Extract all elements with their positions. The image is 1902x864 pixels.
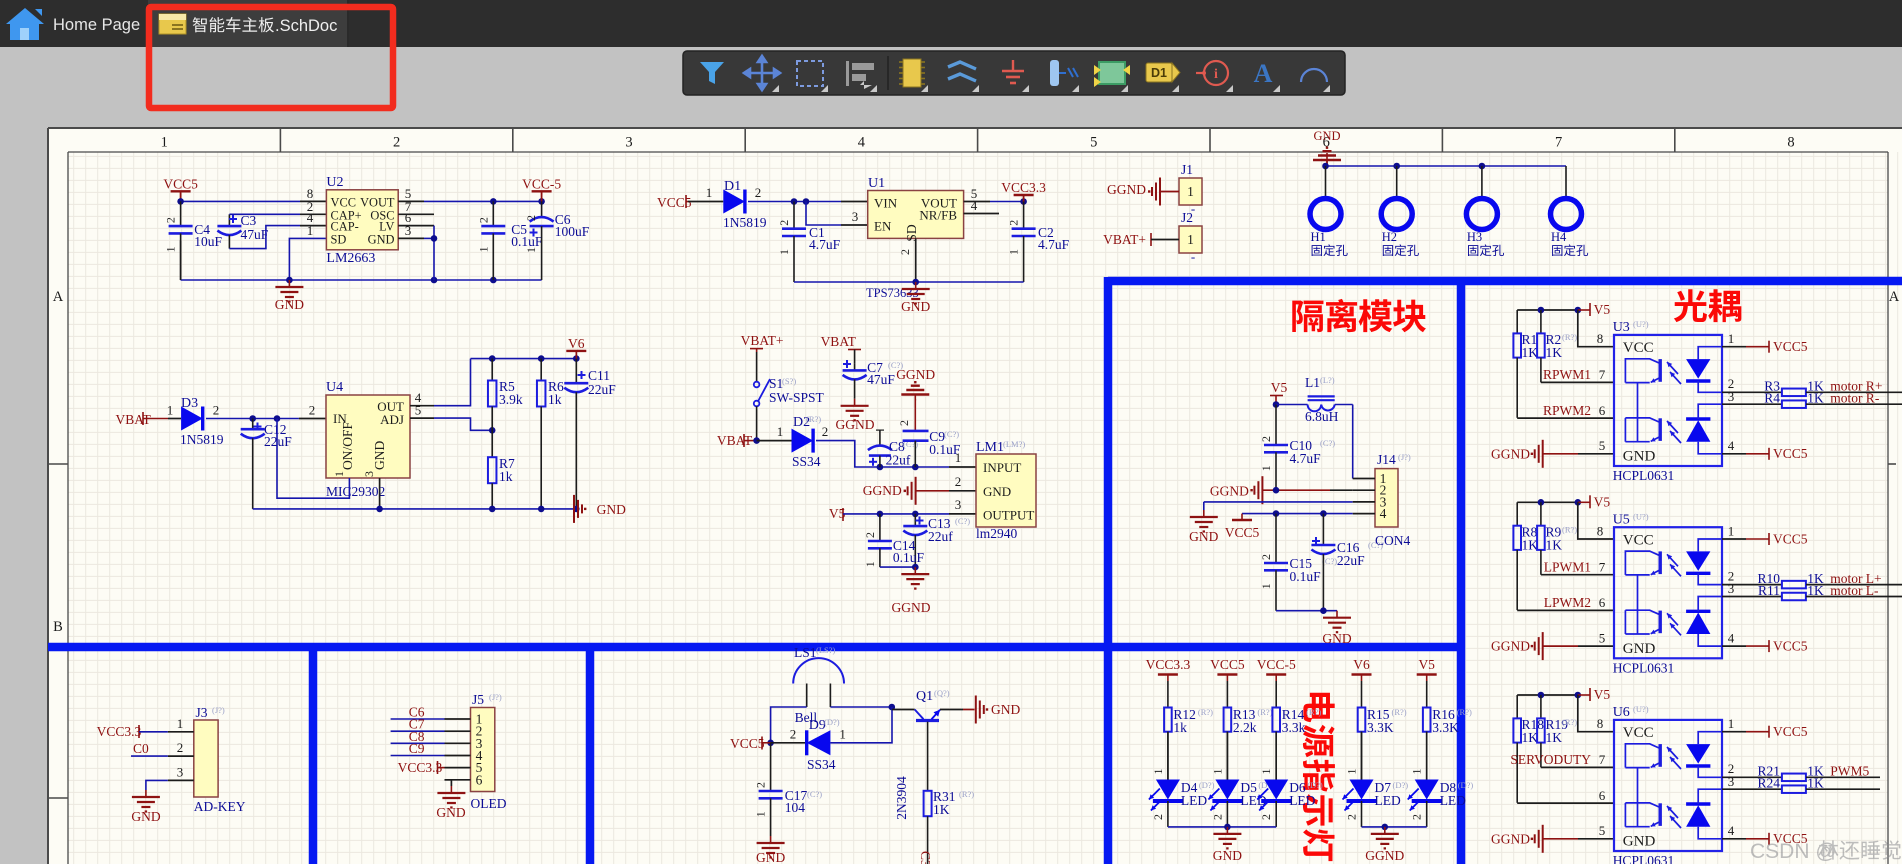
wire bell right leg to Q1 (830, 706, 891, 708)
svg-text:GND: GND (597, 502, 626, 517)
svg-text:(R?): (R?) (1457, 707, 1472, 717)
capacitor C17 (770, 743, 772, 791)
svg-text:1K: 1K (1807, 583, 1824, 598)
svg-text:J2: J2 (1181, 210, 1193, 225)
svg-text:(R?): (R?) (1198, 707, 1213, 717)
svg-text:(R?): (R?) (1562, 332, 1577, 342)
svg-text:4: 4 (971, 198, 978, 213)
phototransistor A (U6) (1658, 744, 1661, 767)
svg-text:(J?): (J?) (1398, 452, 1411, 462)
ic U2 LM2663 (326, 190, 398, 250)
mid link (U5) (1637, 575, 1639, 634)
mounting hole H1 (1325, 166, 1327, 198)
capacitor C7 (854, 364, 856, 371)
svg-text:4: 4 (1728, 438, 1735, 453)
svg-text:47uF: 47uF (867, 372, 895, 387)
svg-text:LM1: LM1 (976, 440, 1004, 455)
svg-text:3: 3 (1728, 389, 1735, 404)
led A (U5) (1686, 551, 1710, 571)
svg-text:2: 2 (1210, 814, 1224, 820)
svg-text:7: 7 (1599, 559, 1606, 574)
ground GND (J5) (450, 786, 452, 793)
light arrows B (U6) (1667, 806, 1678, 818)
resistor R13 (1226, 707, 1228, 709)
resistor R14 (1275, 707, 1277, 709)
svg-text:2: 2 (1259, 436, 1273, 442)
led A (U3) (1686, 359, 1710, 379)
svg-text:(L?): (L?) (1320, 375, 1335, 385)
svg-text:lm2940: lm2940 (976, 526, 1018, 541)
capacitor C2 (1023, 202, 1025, 229)
svg-text:GND: GND (1623, 449, 1656, 465)
sheet border frame (48, 127, 1902, 129)
wire J14 pin4 row (1242, 513, 1353, 515)
U4 pin1 ON/OFF wire loop (277, 419, 349, 499)
svg-text:1: 1 (307, 223, 314, 238)
svg-text:4.7uF: 4.7uF (1038, 237, 1070, 252)
capacitor C5 (492, 201, 494, 226)
capacitor C1 (793, 202, 795, 229)
svg-text:V6: V6 (568, 336, 585, 351)
pin 8 stub U2 (300, 200, 326, 202)
svg-text:22uf: 22uf (886, 453, 911, 468)
light arrows B (U5) (1667, 613, 1678, 625)
connector J5 OLED (471, 708, 495, 792)
svg-text:1: 1 (1151, 769, 1165, 775)
svg-text:(C?): (C?) (807, 789, 822, 799)
light arrows A (U5) (1667, 554, 1678, 566)
svg-text:(D?): (D?) (1199, 780, 1215, 790)
svg-text:C11: C11 (588, 368, 610, 383)
svg-text:VCC5: VCC5 (1773, 638, 1808, 653)
wire pin6 (U3) RPWM2 (1517, 417, 1614, 419)
svg-text:(J?): (J?) (489, 692, 502, 702)
resistor R12 (1167, 707, 1169, 709)
switch S1 SW-SPST (754, 382, 760, 388)
svg-text:EN: EN (874, 219, 892, 234)
svg-text:GGND: GGND (1107, 182, 1146, 197)
wire VCC5 to D1 (688, 201, 723, 203)
svg-text:A: A (53, 289, 64, 305)
svg-text:U5: U5 (1613, 512, 1630, 527)
svg-text:1: 1 (1410, 769, 1424, 775)
svg-text:VCC-5: VCC-5 (522, 176, 561, 191)
pin2 R10 (U5) (1722, 584, 1782, 586)
svg-text:1: 1 (1259, 465, 1273, 471)
svg-text:4: 4 (858, 135, 866, 151)
toolbar arc icon (1301, 69, 1327, 82)
ground GND (Q1) (963, 709, 975, 711)
svg-text:VCC-5: VCC-5 (1257, 657, 1296, 672)
junction dot VCC5/C4 (177, 198, 184, 205)
svg-text:4.7uF: 4.7uF (1290, 451, 1322, 466)
svg-text:VCC: VCC (1623, 532, 1654, 548)
svg-text:B: B (53, 619, 63, 635)
svg-text:2: 2 (1259, 814, 1273, 820)
ground GND (isolation bottom) (1336, 611, 1338, 618)
svg-text:VIN: VIN (874, 196, 898, 211)
wire VBAT+ to S1 (756, 352, 758, 381)
svg-text:VCC3.3: VCC3.3 (1001, 180, 1046, 195)
svg-text:0.1uF: 0.1uF (893, 550, 925, 565)
floating toolbar (683, 51, 1345, 95)
capacitor C12 (252, 419, 254, 430)
svg-text:2: 2 (777, 220, 791, 226)
svg-text:GGND: GGND (1491, 639, 1530, 654)
svg-text:V5: V5 (1271, 380, 1288, 395)
svg-text:OLED: OLED (471, 796, 507, 811)
wire VCC5 to D9 (771, 742, 807, 744)
home icon (6, 8, 44, 40)
power VCC5 (isolation) (1241, 514, 1243, 520)
svg-text:(U?): (U?) (1633, 319, 1649, 329)
pin 4 stub U2 (300, 225, 326, 227)
pin3 R24 (U6) (1722, 788, 1782, 790)
svg-text:GGND: GGND (863, 483, 902, 498)
svg-text:6: 6 (1599, 403, 1606, 418)
svg-text:1: 1 (706, 185, 713, 200)
wire J5 pin6 to GND (445, 780, 452, 786)
wire mounting hole bus (1326, 165, 1567, 167)
power V6 (566, 350, 586, 352)
ground GND (J3) (145, 790, 147, 797)
svg-text:1: 1 (167, 403, 174, 418)
capacitor C4 (180, 201, 182, 226)
optocoupler U3 HCPL0631 (1614, 335, 1722, 466)
ic U4 MIC29302 (326, 395, 410, 478)
svg-text:2: 2 (755, 185, 762, 200)
phototransistor A (U5) (1658, 551, 1661, 574)
phototransistor A (U3) (1658, 359, 1661, 382)
svg-text:5: 5 (1599, 438, 1606, 453)
light arrows B (U3) (1667, 421, 1678, 433)
wire VCC5 to U2 pin8 (181, 200, 300, 202)
svg-text:VCC5: VCC5 (1773, 339, 1808, 354)
capacitor C16 (1322, 514, 1324, 545)
svg-text:VBAT: VBAT (821, 334, 857, 349)
mid link (U6) (1637, 768, 1639, 827)
wire pin6 (U5) LPWM2 (1517, 609, 1614, 611)
svg-text:(LS?): (LS?) (816, 645, 836, 655)
svg-text:(D?): (D?) (1307, 780, 1323, 790)
svg-text:1K: 1K (1546, 345, 1563, 360)
power VCC-5 (532, 190, 552, 192)
svg-text:H2: H2 (1382, 230, 1397, 244)
svg-text:D1: D1 (1151, 66, 1167, 80)
diode D3 1N5819 (181, 407, 203, 431)
svg-text:3: 3 (625, 135, 632, 151)
svg-text:1: 1 (1728, 523, 1735, 538)
gnd rail U1 (794, 281, 1024, 283)
svg-text:1k: 1k (499, 469, 513, 484)
svg-text:GGND: GGND (836, 417, 875, 432)
svg-text:VCC: VCC (1623, 725, 1654, 741)
wire D9 to Q1 base node (830, 707, 892, 743)
svg-text:Q1: Q1 (916, 689, 933, 704)
wire V5 rail (U5) (1517, 501, 1578, 503)
connector J2 (1179, 226, 1202, 253)
svg-text:.SchDoc: .SchDoc (275, 17, 337, 35)
svg-text:VCC5: VCC5 (1773, 531, 1808, 546)
svg-text:1K: 1K (1807, 391, 1824, 406)
svg-text:5: 5 (1090, 135, 1097, 151)
svg-text:2N3904: 2N3904 (894, 776, 909, 820)
svg-text:GND: GND (372, 441, 387, 470)
svg-text:GND: GND (131, 809, 160, 824)
wire LV/GND to rail (424, 237, 434, 239)
red annotation rectangle (149, 7, 393, 108)
svg-text:(R?): (R?) (1562, 524, 1577, 534)
svg-text:1: 1 (476, 246, 490, 252)
junction dots on U2 gnd rail (286, 277, 293, 284)
power VCC5 (U2 block) (171, 190, 191, 192)
svg-text:ADJ: ADJ (380, 412, 404, 427)
top title bar (0, 0, 1902, 47)
pin 5 stub U2 and VOUT wire (398, 200, 424, 202)
pin4 VCC5 (U6) (1722, 838, 1746, 840)
svg-text:SS34: SS34 (807, 757, 836, 772)
svg-text:V6: V6 (1353, 657, 1370, 672)
wire VBAT to D3 (143, 418, 168, 420)
svg-text:VBAT+: VBAT+ (1103, 232, 1146, 247)
capacitor C14 (879, 514, 881, 541)
led D5 (1226, 732, 1228, 780)
ground GND (isolation) (1203, 510, 1205, 517)
svg-text:VCC5: VCC5 (1773, 446, 1808, 461)
svg-text:PWM5: PWM5 (1830, 764, 1869, 779)
svg-text:H4: H4 (1551, 230, 1567, 244)
svg-text:SW-SPST: SW-SPST (769, 390, 825, 405)
svg-text:V5: V5 (1594, 687, 1611, 702)
title 光耦 (1674, 289, 1742, 322)
pin4 VCC5 (U5) (1722, 645, 1746, 647)
diode D2 SS34 (792, 429, 814, 453)
wire led gnd bus 2 (1362, 826, 1427, 828)
svg-text:3: 3 (852, 209, 859, 224)
svg-text:D3: D3 (181, 396, 198, 411)
wire pin8 (U3) (1578, 310, 1614, 347)
toolbar separator (887, 56, 889, 90)
svg-text:47uF: 47uF (241, 227, 269, 242)
svg-text:OUTPUT: OUTPUT (983, 508, 1034, 523)
wire pin8 (U6) (1578, 695, 1614, 732)
svg-text:SD: SD (904, 224, 919, 242)
wire V5 rail (U3) (1517, 309, 1578, 311)
svg-text:-: - (1191, 249, 1195, 264)
pin4 NR/FB stub (964, 213, 999, 215)
svg-text:i: i (1214, 67, 1218, 82)
svg-text:(J?): (J?) (212, 705, 225, 715)
svg-text:1K: 1K (1807, 776, 1824, 791)
wire pin6 (U6) (1517, 802, 1614, 804)
svg-text:1: 1 (1210, 769, 1224, 775)
svg-text:GND: GND (756, 850, 785, 864)
svg-text:U2: U2 (326, 175, 343, 190)
resistor R8 (1516, 502, 1518, 525)
svg-text:LED: LED (1440, 793, 1466, 808)
svg-text:HCPL0631: HCPL0631 (1613, 468, 1675, 483)
svg-text:5: 5 (1599, 823, 1606, 838)
svg-text:4: 4 (1380, 506, 1387, 521)
toolbar select icon (797, 61, 823, 86)
svg-text:2: 2 (476, 217, 490, 223)
svg-text:1: 1 (161, 135, 168, 151)
svg-text:(R?): (R?) (1392, 707, 1407, 717)
svg-text:GGND: GGND (1365, 848, 1404, 863)
svg-text:R11: R11 (1758, 583, 1780, 598)
resistor R9 (1540, 502, 1542, 525)
svg-text:(R?): (R?) (1562, 717, 1577, 727)
svg-text:2: 2 (177, 740, 184, 755)
svg-text:GGND: GGND (896, 367, 935, 382)
svg-text:6: 6 (1599, 595, 1606, 610)
phototransistor B (U5) (1658, 611, 1661, 634)
toolbar sheet symbol icon (1099, 62, 1125, 84)
svg-text:2: 2 (1151, 814, 1165, 820)
svg-text:U4: U4 (326, 380, 343, 395)
svg-text:(LM?): (LM?) (1003, 439, 1025, 449)
connector J1 (1179, 178, 1202, 205)
svg-text:VOUT: VOUT (360, 196, 395, 210)
resistor R1 (1516, 310, 1518, 333)
phototransistor B (U6) (1658, 803, 1661, 826)
svg-text:7: 7 (1599, 367, 1606, 382)
toolbar filter icon (700, 62, 724, 84)
wire U2 SD pin1 to gnd rail (289, 238, 326, 280)
svg-text:motor R-: motor R- (1830, 391, 1880, 406)
light arrows A (U6) (1667, 747, 1678, 759)
ground GGND (C7) (854, 399, 856, 406)
svg-text:22uF: 22uF (264, 434, 292, 449)
svg-text:GND: GND (1213, 848, 1242, 863)
gnd rail U4 block (253, 508, 573, 510)
resistor R2 (1540, 310, 1542, 333)
port V5 (U5) (1589, 495, 1591, 508)
grid minor (68, 152, 1898, 864)
junction dots VOUT rail (490, 198, 497, 205)
toolbar info icon (1204, 61, 1228, 85)
svg-text:GGND: GGND (1491, 446, 1530, 461)
wire J14 pin3 to GND (1204, 501, 1353, 503)
led D4 (1167, 732, 1169, 780)
svg-text:7: 7 (1599, 752, 1606, 767)
pin 6 stub U2 (398, 225, 434, 227)
svg-text:2: 2 (897, 420, 911, 426)
border row ticks and letters (48, 463, 68, 465)
power VCC3.3 (U1) (1014, 194, 1034, 196)
light arrows A (U3) (1667, 362, 1678, 374)
svg-text:3.3K: 3.3K (1367, 720, 1394, 735)
svg-text:HCPL0631: HCPL0631 (1613, 660, 1675, 675)
svg-text:22uf: 22uf (928, 529, 953, 544)
svg-text:(C?): (C?) (944, 429, 959, 439)
pin2 R21 (U6) (1722, 776, 1782, 778)
svg-text:1N5819: 1N5819 (723, 215, 767, 230)
wire bell left leg (771, 707, 807, 743)
wire U1 SD pin2 to gnd (915, 238, 917, 282)
svg-text:R4: R4 (1764, 391, 1780, 406)
svg-text:1: 1 (1259, 583, 1273, 589)
wire pin7 (U5) LPWM1 (1541, 574, 1614, 576)
svg-text:A: A (1254, 59, 1273, 88)
svg-text:C9: C9 (409, 741, 425, 756)
svg-text:1K: 1K (1522, 537, 1539, 552)
svg-text:(C?): (C?) (1320, 438, 1335, 448)
pin5 VOUT wire U1 (964, 201, 990, 203)
mid link (U3) (1637, 383, 1639, 442)
ic LM1 lm2940 (976, 454, 1036, 527)
svg-text:RPWM2: RPWM2 (1543, 403, 1591, 418)
svg-text:LPWM2: LPWM2 (1544, 595, 1591, 610)
svg-text:(R?): (R?) (806, 414, 821, 424)
svg-text:3: 3 (1728, 774, 1735, 789)
document tab icon (159, 14, 186, 34)
svg-text:10uF: 10uF (194, 234, 222, 249)
svg-text:VCC: VCC (331, 196, 356, 210)
pin 2 stub U2 (300, 213, 326, 215)
toolbar gnd icon (1002, 60, 1024, 83)
svg-text:GGND: GGND (892, 600, 931, 615)
svg-text:SD: SD (331, 233, 347, 247)
svg-text:U1: U1 (868, 176, 885, 191)
pin2 R3 (U3) (1722, 391, 1782, 393)
active document tab (148, 0, 348, 47)
gnd rail C13/C14 (880, 566, 915, 568)
svg-text:VCC3.3: VCC3.3 (1146, 657, 1191, 672)
svg-text:1: 1 (1345, 769, 1359, 775)
svg-text:NR/FB: NR/FB (919, 208, 957, 223)
svg-text:3.3K: 3.3K (1432, 720, 1459, 735)
wire D2 to LM1 INPUT (816, 441, 949, 467)
svg-text:INPUT: INPUT (983, 460, 1021, 475)
svg-text:GND: GND (1623, 834, 1656, 850)
svg-text:GND: GND (1623, 641, 1656, 657)
svg-text:GND: GND (1189, 529, 1218, 544)
svg-text:VCC3.3: VCC3.3 (398, 760, 443, 775)
mounting hole H2 (1396, 166, 1398, 198)
svg-text:A: A (1889, 289, 1900, 305)
svg-text:VBAT: VBAT (116, 412, 152, 427)
svg-text:(U?): (U?) (1633, 704, 1649, 714)
svg-text:D1: D1 (724, 179, 741, 194)
svg-text:1: 1 (754, 811, 768, 817)
svg-text:GGND: GGND (1210, 484, 1249, 499)
mounting hole H4 (1565, 166, 1567, 198)
led A (U6) (1686, 744, 1710, 764)
grid major (0, 0, 1, 1)
svg-text:1: 1 (1259, 769, 1273, 775)
svg-text:SS34: SS34 (792, 454, 821, 469)
optocoupler U6 HCPL0631 (1614, 720, 1722, 851)
svg-text:AD-KEY: AD-KEY (194, 799, 246, 814)
svg-text:2: 2 (790, 727, 797, 742)
wire Q1 base to R31 (927, 722, 929, 791)
watermark CSDN (1750, 840, 1901, 863)
wire pin7 (U6) SERVODUTY (1541, 766, 1614, 768)
svg-text:VCC5: VCC5 (1225, 525, 1260, 540)
svg-text:MIC29302: MIC29302 (326, 484, 385, 499)
svg-text:1: 1 (863, 561, 877, 567)
svg-text:motor L-: motor L- (1830, 583, 1879, 598)
svg-text:8: 8 (1787, 135, 1794, 151)
blue divider horizontal right-top (1108, 277, 1902, 286)
svg-text:2: 2 (754, 782, 768, 788)
svg-text:1K: 1K (1546, 730, 1563, 745)
ground GND (U2 block) (288, 280, 290, 287)
svg-text:8: 8 (1597, 331, 1604, 346)
mounting hole H3 (1481, 166, 1483, 198)
wire L1 to J14 pin1 (1352, 405, 1354, 479)
